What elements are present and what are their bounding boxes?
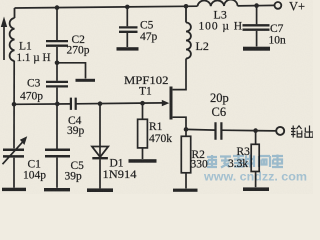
wire C5 lower bottom: [56, 158, 58, 188]
capacitor C5 upper: [119, 27, 138, 31]
ground C5 lower: [44, 188, 70, 191]
wire top rail left segment: [15, 6, 198, 8]
capacitor C1 arrow head: [20, 136, 27, 145]
wire output line left: [186, 128, 215, 131]
ground C5 upper: [117, 47, 139, 50]
wire gate line right: [76, 102, 163, 105]
junction R1 top: [140, 101, 145, 106]
wire C2 ground jog: [57, 63, 86, 79]
ground C1: [2, 188, 26, 191]
capacitor C1 arrow: [3, 142, 24, 165]
wire R2 bottom: [185, 173, 187, 189]
junction C7 top: [254, 3, 259, 8]
diode D1: [92, 147, 108, 158]
wire C7 bottom: [256, 31, 258, 47]
antenna arrowhead: [1, 17, 7, 28]
transistor Q1 gate arrowhead: [162, 100, 170, 106]
wire R2 top: [185, 129, 187, 136]
wire C2 bottom: [56, 47, 58, 63]
capacitor C5 lower: [45, 150, 70, 157]
ground D1: [87, 188, 113, 192]
wire R3 top: [255, 131, 257, 145]
junction D1 top: [98, 101, 103, 106]
wire C5 upper bottom: [126, 33, 128, 47]
inductor L3: [198, 0, 238, 6]
resistor R3: [251, 144, 259, 171]
ground C2: [76, 79, 96, 82]
inductor L1: [10, 8, 15, 61]
ground R2: [173, 189, 198, 192]
wire left column: [13, 61, 15, 148]
wire gate line left: [14, 103, 70, 105]
wire R1 top: [142, 103, 144, 119]
antenna: [3, 26, 5, 60]
capacitor C4: [71, 98, 76, 110]
wire C2 top: [56, 8, 58, 40]
junction L2 top: [184, 4, 189, 9]
ground C7: [243, 47, 270, 51]
transistor Q1 channel bar: [170, 87, 173, 120]
wire C3 top: [56, 63, 58, 81]
capacitor C7: [243, 25, 270, 29]
transistor Q1 drain wire: [173, 59, 186, 90]
capacitor C3: [46, 82, 68, 87]
transistor Q1 source wire: [173, 117, 186, 129]
resistor R2: [181, 136, 190, 173]
wire C7 top: [256, 6, 258, 25]
terminal V+: [275, 2, 282, 9]
capacitor C2: [46, 41, 68, 46]
wire C5 upper top: [126, 7, 128, 26]
terminal output: [276, 127, 284, 135]
scan grain overlay: [0, 0, 313, 194]
paper background: [0, 0, 313, 194]
capacitor C6: [216, 122, 222, 140]
wire C3 bottom: [56, 88, 58, 104]
wire R1 bottom: [142, 148, 144, 159]
junction tank right: [55, 102, 60, 107]
wire C1 bottom: [13, 158, 15, 188]
inductor L2: [186, 6, 191, 58]
capacitor C1 variable: [3, 150, 24, 157]
junction C2 bottom: [55, 61, 60, 66]
wire R3 bottom: [255, 172, 257, 188]
junction C5 upper top: [125, 5, 130, 10]
junction source node: [184, 127, 189, 132]
wire C5 lower top: [56, 104, 58, 149]
label output 输出 (drawn glyphs): [291, 126, 314, 138]
ground R1: [129, 159, 157, 163]
junction R3 top: [253, 128, 258, 133]
junction C2 top: [55, 5, 60, 10]
ground R3: [243, 187, 269, 191]
watermark row 1 (blue CJK blobs): [207, 155, 283, 168]
wire D1 bottom: [99, 159, 101, 188]
wire D1 top: [99, 104, 101, 158]
wire output line right: [222, 129, 276, 132]
wire top rail right segment: [238, 4, 275, 7]
junction tank left: [12, 102, 17, 107]
resistor R1: [138, 119, 148, 148]
